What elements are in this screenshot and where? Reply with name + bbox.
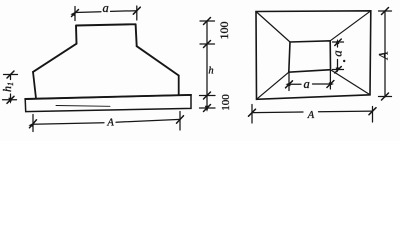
left figure: dimension h1 bottom tick xyxy=(3,99,17,101)
right figure: inner vertical dimension a line xyxy=(337,42,339,70)
right figure: inner dimension a right arrow xyxy=(329,82,334,86)
right figure: diagonal top-right xyxy=(330,11,371,41)
left figure: dimension h1 top tick xyxy=(4,74,18,76)
middle chain: tick below 100 xyxy=(200,43,215,45)
right figure: right dimension b bottom tick xyxy=(379,96,392,98)
left figure: dimension a tick left xyxy=(72,10,79,17)
left figure: right side vertical xyxy=(178,76,180,95)
right figure: inner dimension a extension lines xyxy=(289,70,330,91)
right figure: diagonal bottom-left xyxy=(257,72,289,99)
right figure: inner vertical dimension top tick xyxy=(333,41,344,43)
right figure: inner rectangle xyxy=(289,41,331,72)
middle chain: tick at top xyxy=(200,20,215,22)
svg-text:h: h xyxy=(208,66,213,77)
left figure: dimension a tick right xyxy=(133,7,140,14)
right figure: bottom dimension b line xyxy=(252,111,373,113)
left figure: right slope xyxy=(137,46,179,75)
right figure: outer rectangle (plan) xyxy=(256,11,371,100)
left figure: dimension h1 line xyxy=(10,75,12,100)
left figure: dimension h1 bottom arrow xyxy=(8,98,12,104)
svg-text:A: A xyxy=(307,110,315,121)
svg-text:A: A xyxy=(377,51,391,60)
left figure: dimension a line xyxy=(75,11,137,13)
svg-text:h1: h1 xyxy=(0,82,15,92)
svg-text:A: A xyxy=(106,117,114,128)
left figure: slab interior joint line xyxy=(56,105,110,108)
right figure: right dimension b top tick xyxy=(379,10,392,12)
right figure: inner dimension a ticks xyxy=(286,81,334,88)
left figure: slab top edge heavy xyxy=(25,95,191,99)
svg-text:a: a xyxy=(330,50,345,57)
svg-text:100: 100 xyxy=(217,22,231,40)
left figure: pedestal (column stub) xyxy=(76,24,137,46)
right figure: inner vertical dimension label dot xyxy=(343,60,345,62)
right figure: inner dimension a line xyxy=(289,83,330,85)
left figure: bottom dimension b line xyxy=(33,119,180,124)
right figure: inner vertical dimension top arrow xyxy=(336,39,340,44)
left figure: bottom dimension b extension lines xyxy=(33,112,180,132)
left figure: bottom dimension b right tick xyxy=(177,116,184,124)
svg-text:100: 100 xyxy=(220,94,232,111)
right figure: diagonal top-left xyxy=(256,12,290,43)
right figure: bottom dimension b extension lines xyxy=(252,105,373,124)
right figure: inner dimension a left arrow xyxy=(286,82,291,86)
svg-text:a: a xyxy=(102,1,108,15)
right figure: inner vertical dimension bottom arrow xyxy=(336,68,340,73)
left figure: dimension a extension lines xyxy=(75,6,137,21)
left figure: bottom dimension b left arrow xyxy=(29,122,35,127)
middle dimension chain: vertical line xyxy=(206,21,208,108)
right figure: diagonal bottom-right xyxy=(331,70,371,95)
svg-text:a: a xyxy=(303,77,309,91)
right figure: inner vertical dimension bottom tick xyxy=(333,69,344,71)
middle chain: tick below h xyxy=(200,95,216,97)
left figure: left slope xyxy=(33,44,77,72)
right figure: bottom dimension b ticks xyxy=(249,108,377,117)
left figure: base slab xyxy=(25,95,191,112)
middle chain: bottom arrow xyxy=(205,106,209,112)
middle chain: bottom tick xyxy=(200,107,216,109)
left figure: dimension a arrow left xyxy=(71,12,77,17)
left figure: bottom dimension b left tick xyxy=(30,120,37,128)
left figure: left side vertical xyxy=(33,72,36,98)
right figure: right dimension b line xyxy=(384,11,386,97)
